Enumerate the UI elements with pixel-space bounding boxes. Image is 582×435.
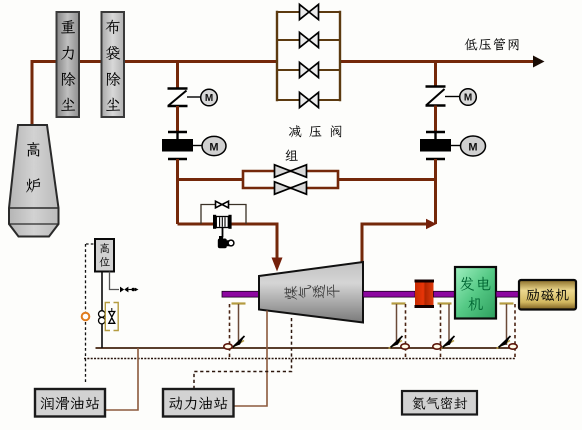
bearing drain between turbine and coupling [389,304,410,359]
bearing drain at exciter [497,304,518,359]
label: 减压阀组 [285,125,341,161]
bypass parallel frame [243,171,338,188]
coupling (red) [415,280,435,309]
wire: turbine admission line [178,224,278,259]
power oil station box 动力油站 [163,389,234,417]
bypass valve upper (bowtie) [275,165,307,177]
bypass valve lower (bowtie) [275,182,307,194]
svg-text:M: M [468,142,477,154]
dashed link from tank [86,243,95,245]
wire: bypass line left [178,178,244,181]
wire: right chain down to exhaust tee [434,159,437,224]
gravity dust collector box 重力除尘 [57,12,80,117]
shaft (purple) coupling to generator [434,291,456,297]
motor M of right butterfly valve [445,89,476,106]
svg-text:M: M [464,93,472,104]
reducing valve 2 (bowtie) [300,32,319,47]
reducing valve 4 (bowtie) [300,92,319,107]
lube oil station box 润滑油站 [35,389,105,417]
blast furnace 高炉 [9,125,59,237]
khaki bracket around instruments [105,303,118,331]
control valve actuator [218,228,234,248]
wire: turbine exhaust to network riser [362,224,427,262]
wire: left chain down to admission line [176,159,179,224]
goggle/blind valve right (black) with flanges [420,132,451,159]
svg-text:M: M [205,93,213,104]
wire: bypass line right [338,178,436,181]
motor M of left butterfly valve [187,89,217,106]
goggle/blind valve left (black) with flanges [162,132,193,159]
motor M of left goggle valve [193,136,226,155]
wire: main gas pipe top header [32,62,277,125]
svg-text:M: M [209,142,218,154]
shaft (purple) turbine to coupling [363,291,415,297]
indicator (orange circle) [82,313,90,321]
shaft (purple) generator to exciter [496,291,519,297]
dashed control line vertical to lube oil station [85,244,87,384]
manual bypass valve (small bowtie) [216,201,229,208]
motor M of right goggle valve [451,136,486,156]
nitrogen seal box 氮气密封 [402,391,477,415]
dashed control line horizontal [84,358,516,360]
gas turbine 煤气透平 [259,262,363,323]
flow meter (double circle) [99,311,106,324]
check valve (vertical hourglass) [109,308,115,323]
shaft (purple) left stub [222,291,259,297]
turbine control dashed to power oil station [194,318,292,389]
wire: left chain between valves [176,106,179,131]
turbine bearing drain (left of turbine) [224,304,246,359]
butterfly valve right (with motor) [426,87,446,106]
wire: right chain between valves [434,106,437,132]
arrow: exhaust into riser [426,219,437,229]
high level oil tank 高位 [95,239,114,272]
exciter 励磁机 (tan) [519,280,576,310]
wire: right chain riser [434,62,437,87]
arrow: into turbine inlet [272,258,283,272]
small bypass loop around control valve [201,205,246,225]
wire: left chain riser [176,62,179,89]
reducing valve 1 (bowtie) [300,4,319,19]
pressure reducing valve group frame [277,11,340,101]
turbine drain to power oil station (solid brown) [234,311,268,407]
reducing valve 3 (bowtie) [300,62,319,77]
vent line with valve and plug [110,272,139,293]
bearing drain between coupling and generator [433,304,455,359]
control valve (quick closing) body [213,215,232,229]
solid oil return line [96,347,517,349]
oil pipe to lube oil station (brown) [106,348,138,410]
label: low pressure network 低压管网 [465,38,519,51]
butterfly valve left (with motor) [168,89,188,107]
oil feed line from tank [101,272,103,349]
generator 发电机 (green) [455,267,496,319]
bag filter box 布袋除尘 [102,12,125,117]
wire: pipe to low pressure network [340,60,536,63]
arrow: to low pressure network [533,56,545,68]
